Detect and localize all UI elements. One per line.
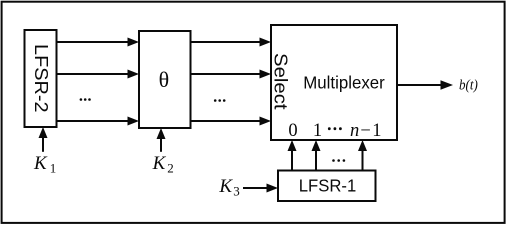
wire LFSR-1 to multiplexer input n-1 — [358, 140, 367, 171]
wire LFSR-2 to theta, line 2 — [57, 70, 140, 79]
label b(t) — [459, 77, 478, 93]
svg-text:2: 2 — [167, 161, 174, 176]
svg-text:K: K — [218, 176, 233, 197]
key input wire K3 — [244, 184, 278, 193]
wire theta to multiplexer select, line 1 — [191, 38, 272, 47]
svg-text:K: K — [33, 153, 48, 174]
svg-text:Select: Select — [271, 53, 291, 110]
svg-text:K: K — [152, 153, 167, 174]
wire LFSR-2 to theta, line 1 — [57, 38, 140, 47]
label K3 — [218, 176, 239, 199]
register LFSR-2 — [25, 30, 57, 127]
register LFSR-1 — [278, 171, 376, 202]
wire LFSR-1 to multiplexer input 1 — [312, 140, 321, 171]
ellipsis dots between select lines — [214, 99, 226, 102]
multiplexer U1 — [271, 25, 397, 141]
svg-text:n: n — [350, 121, 359, 141]
ellipsis dots between LFSR-1 tap lines — [332, 159, 345, 162]
svg-text:LFSR-2: LFSR-2 — [31, 44, 51, 113]
wire theta to multiplexer select, line 3 — [191, 117, 272, 126]
wire theta to multiplexer select, line 2 — [191, 70, 272, 79]
ellipsis dots between pin labels — [328, 127, 331, 130]
svg-text:1: 1 — [313, 121, 322, 141]
label K2 — [152, 153, 174, 176]
ellipsis dots between LFSR-2 output lines — [80, 98, 91, 101]
label K1 — [33, 153, 56, 176]
wire LFSR-1 to multiplexer input 0 — [288, 140, 297, 171]
key input wire K2 — [157, 128, 166, 151]
svg-text:LFSR-1: LFSR-1 — [299, 176, 357, 196]
output wire b(t) — [397, 80, 453, 90]
wire LFSR-2 to theta, line 3 — [57, 117, 140, 126]
block theta — [139, 31, 191, 128]
svg-text:Multiplexer: Multiplexer — [303, 72, 385, 92]
svg-text:1: 1 — [50, 161, 57, 176]
svg-text:b(t): b(t) — [459, 77, 478, 93]
svg-text:3: 3 — [233, 184, 240, 199]
svg-text:1: 1 — [372, 121, 381, 141]
svg-text:θ: θ — [159, 67, 170, 92]
svg-text:−: − — [360, 121, 370, 141]
svg-text:0: 0 — [288, 121, 297, 141]
key input wire K1 — [39, 127, 48, 151]
